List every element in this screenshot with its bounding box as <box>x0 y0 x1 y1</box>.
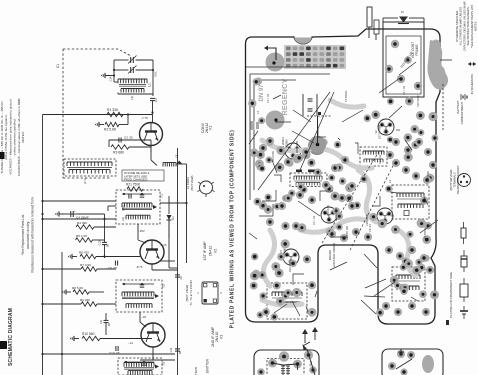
vol frame pads <box>385 40 441 91</box>
wire row 304 <box>41 303 81 305</box>
wire right margin <box>440 60 452 130</box>
svg-text:C1: C1 <box>56 64 60 68</box>
capacitor C10 <box>109 346 120 355</box>
svg-text:CAPACITORS: DECIMAL VALUES IN: CAPACITORS: DECIMAL VALUES IN MF; <box>462 0 466 51</box>
svg-text:TERMINALS: TERMINALS <box>453 172 457 188</box>
label R13 500K <box>399 51 416 75</box>
resistor R7 3.9K <box>41 263 116 271</box>
svg-text:R8 5.6K: R8 5.6K <box>72 286 84 290</box>
volume control frame <box>383 22 424 97</box>
title SCHEMATIC DIAGRAM <box>8 308 14 366</box>
voltage labels <box>128 229 167 345</box>
svg-text:COMPARTMENT: COMPARTMENT <box>460 102 464 125</box>
title PLATED PANEL WIRING <box>230 130 236 329</box>
earphone jack <box>367 7 379 40</box>
arrow symbol top-left <box>264 46 276 61</box>
svg-text:OSC: OSC <box>155 71 158 77</box>
svg-text:NOTES:: NOTES: <box>21 131 25 143</box>
svg-text:REGENCY: REGENCY <box>280 79 289 116</box>
svg-text:-.35V: -.35V <box>138 229 145 233</box>
wire misc1 <box>108 206 116 211</box>
notes text block <box>0 98 25 176</box>
wire bottom rail <box>41 353 175 355</box>
transistor V3 <box>141 323 165 347</box>
tuning gang C1 dashed outline <box>56 49 131 178</box>
transformer T5 on board <box>392 267 425 301</box>
svg-text:CAPACITORS – Decimal values in: CAPACITORS – Decimal values in MF, all o… <box>17 98 21 176</box>
wire T2 to V3 base <box>140 312 146 327</box>
wire rail emitter col <box>177 148 179 375</box>
svg-text:-7.75: -7.75 <box>141 116 148 120</box>
tuning capacitor mounting grid <box>284 45 346 69</box>
wire rail left <box>42 115 44 375</box>
svg-text:R16 10K: R16 10K <box>334 208 338 218</box>
transistor V2 <box>140 240 164 264</box>
resistor R8 5.6K <box>63 286 104 295</box>
svg-text:2N412: 2N412 <box>208 246 212 257</box>
diode M1 <box>383 10 424 24</box>
transformer T1 on board <box>360 147 387 166</box>
wire v2 col <box>160 260 175 262</box>
svg-text:ALL OTHERS IN MMF UNLESS: ALL OTHERS IN MMF UNLESS <box>459 7 463 46</box>
wire row 201 <box>41 200 116 215</box>
svg-text:TUNING RANGE – 535 KC to 1605: TUNING RANGE – 535 KC to 1605 KC. IF – 4… <box>0 100 4 173</box>
silkscreen REGENCY <box>280 79 289 116</box>
svg-text:E1: E1 <box>171 216 175 220</box>
label T conn <box>185 280 193 305</box>
svg-text:*SEE REPLACEMENT PARTS LIST.: *SEE REPLACEMENT PARTS LIST. <box>470 4 474 48</box>
cap symbols on board <box>303 94 321 116</box>
note box IN SOME RE-4000 <box>122 170 164 181</box>
ground at tank <box>102 73 114 78</box>
page reference mark left lower <box>0 341 7 349</box>
svg-text:T4 455KC: T4 455KC <box>423 227 427 239</box>
svg-text:SCHEMATIC DIAGRAM: SCHEMATIC DIAGRAM <box>8 308 14 366</box>
svg-text:R9 22K: R9 22K <box>80 298 91 302</box>
coil L3 <box>160 155 188 263</box>
resistor R5 1.5K <box>76 234 105 242</box>
tuning capacitor C1A C1B <box>110 56 158 97</box>
resistor R3 680 <box>109 140 151 155</box>
wire emitter V2 <box>152 264 183 280</box>
svg-text:C10 .05: C10 .05 <box>109 351 120 355</box>
svg-text:2ND IF AMP: 2ND IF AMP <box>211 326 215 347</box>
svg-text:VOLTAGES – Measured from point: VOLTAGES – Measured from point indicated… <box>8 99 12 174</box>
gray disc center <box>308 137 326 155</box>
svg-text:.05: .05 <box>106 244 110 248</box>
socket mid on board <box>321 207 337 223</box>
resistor R4 39K <box>76 221 116 229</box>
svg-text:R1 33K: R1 33K <box>107 108 119 112</box>
gray disc center overdraw <box>309 116 326 153</box>
interconnect traces <box>249 78 438 316</box>
svg-text:R7 3.9K: R7 3.9K <box>80 263 92 267</box>
svg-text:with a VTVM, ±10%. No signal i: with a VTVM, ±10%. No signal in. <box>4 114 8 160</box>
diode E1 <box>167 196 178 268</box>
svg-text:(2.5): (2.5) <box>121 205 125 210</box>
pcb board outline <box>246 29 441 324</box>
svg-text:.05: .05 <box>178 351 182 355</box>
svg-text:C17 .02: C17 .02 <box>378 154 382 164</box>
label V1 <box>201 122 213 133</box>
resistor R1 33K <box>107 108 123 117</box>
antenna coil L2 dashed <box>64 159 116 184</box>
right margin notes <box>455 0 478 51</box>
transformer T2 on board <box>267 283 307 319</box>
transformer L2 on board <box>290 170 327 187</box>
wire rail left2 <box>61 252 63 375</box>
transformer T3 <box>118 358 166 375</box>
svg-text:T1: T1 <box>160 194 164 198</box>
svg-text:R21 750K: R21 750K <box>126 183 141 187</box>
gray blob right lower <box>436 66 446 90</box>
svg-text:LOCATED UNDER: LOCATED UNDER <box>332 243 336 268</box>
svg-text:R2 5.6K: R2 5.6K <box>104 128 117 132</box>
svg-text:R3 680: R3 680 <box>113 151 124 155</box>
wire V1 base <box>152 113 154 123</box>
svg-text:C11: C11 <box>169 347 173 352</box>
svg-text:L1: L1 <box>148 83 152 87</box>
svg-text:FRAME: FRAME <box>415 44 419 55</box>
svg-text:L3: L3 <box>175 155 179 159</box>
svg-text:L2 CONV: L2 CONV <box>186 177 190 189</box>
wire base feed R1 <box>43 114 153 116</box>
svg-text:T2: T2 <box>162 284 166 288</box>
wire T1 to V2 base <box>138 224 146 243</box>
svg-text:SEE PRODUCTION CHANGES.: SEE PRODUCTION CHANGES. <box>466 6 470 45</box>
wire V1 collector chain <box>151 146 157 166</box>
svg-text:BOARD: BOARD <box>328 250 332 260</box>
svg-text:C8 .04: C8 .04 <box>368 224 372 232</box>
svg-text:associated circuitry.: associated circuitry. <box>26 221 30 249</box>
L2 CONV bottom view symbol <box>186 175 215 197</box>
svg-text:T1, T2 & T3 CONN: T1, T2 & T3 CONN <box>189 280 193 305</box>
code details symbols <box>460 250 468 319</box>
capacitor C11 <box>169 347 182 355</box>
gray disc mid-left <box>266 111 285 130</box>
svg-text:(BOTTOM VIEW): (BOTTOM VIEW) <box>449 169 453 190</box>
svg-text:CONV: CONV <box>285 139 289 147</box>
svg-text:unless otherwise specified.: unless otherwise specified. <box>13 118 17 155</box>
svg-text:R16 10K: R16 10K <box>288 262 292 272</box>
svg-text:T4 455KC: T4 455KC <box>344 90 348 102</box>
in schematic symbol <box>468 62 476 94</box>
svg-text:R12 6.8K: R12 6.8K <box>271 151 275 162</box>
transformer T4 on board <box>392 185 429 219</box>
svg-text:R12 6.8K: R12 6.8K <box>426 171 430 182</box>
svg-text:(BOT VIEW): (BOT VIEW) <box>185 285 189 302</box>
svg-text:C17 .02: C17 .02 <box>402 85 406 95</box>
socket V3 on board <box>377 208 393 224</box>
svg-text:R10 560: R10 560 <box>82 332 95 336</box>
svg-text:R12 6.8K: R12 6.8K <box>326 205 330 216</box>
svg-text:C8: C8 <box>179 276 183 280</box>
svg-text:1ST IF AMP: 1ST IF AMP <box>203 241 207 261</box>
svg-text:(2.1): (2.1) <box>83 178 87 184</box>
svg-text:.05: .05 <box>107 323 111 327</box>
copper traces light gray <box>262 100 416 305</box>
battery symbol <box>461 94 467 100</box>
transformer T2 <box>116 280 166 312</box>
resistor R6 470 <box>69 251 140 260</box>
board reference labels <box>256 85 430 272</box>
svg-text:PLATED PANEL WIRING AS VIEWED: PLATED PANEL WIRING AS VIEWED FROM TOP (… <box>230 130 236 329</box>
component pads <box>248 77 439 320</box>
svg-text:DN 97: DN 97 <box>259 84 265 102</box>
svg-text:C1A: C1A <box>110 76 113 81</box>
svg-text:R6 470: R6 470 <box>79 251 89 255</box>
transistor socket bottom view symbol <box>449 165 471 194</box>
dashed trace <box>307 115 332 117</box>
svg-text:CONV: CONV <box>201 122 205 133</box>
svg-text:-1.25: -1.25 <box>160 243 167 247</box>
svg-text:Resistances measured with tran: Resistances measured with transistors re… <box>31 197 35 272</box>
capacitor C15 <box>98 214 110 258</box>
resistor R9 22K <box>80 298 116 306</box>
arrow under board <box>312 327 318 340</box>
svg-text:1ST IF AMP: 1ST IF AMP <box>378 125 382 140</box>
socket V2 on board <box>374 119 394 139</box>
conn square T1 T2 T3 <box>196 282 223 304</box>
svg-text:TRAN: TRAN <box>194 367 198 375</box>
svg-text:(BOT VIEW): (BOT VIEW) <box>190 175 194 190</box>
small pads left edge <box>251 121 260 130</box>
capacitor C6 <box>108 261 118 271</box>
svg-text:R5 1.5K: R5 1.5K <box>76 234 88 238</box>
svg-text:EMITTER: EMITTER <box>206 358 210 373</box>
voltage label -7.75 <box>141 116 148 120</box>
svg-text:C9: C9 <box>99 320 103 324</box>
svg-text:R16 10K: R16 10K <box>345 226 349 236</box>
board notch fill <box>294 38 312 44</box>
label V3 <box>211 326 223 347</box>
svg-text:*See Replacement Parts List: *See Replacement Parts List <box>21 215 25 256</box>
osc coil L1 <box>114 79 153 100</box>
notes text block 2 <box>21 197 35 272</box>
svg-text:2N412: 2N412 <box>205 123 209 134</box>
svg-text:C3 .05: C3 .05 <box>124 136 133 140</box>
resistor R10 560 <box>71 332 152 341</box>
capacitor C9 <box>99 313 111 335</box>
svg-text:C15: C15 <box>98 240 102 245</box>
svg-text:(.4): (.4) <box>130 96 134 100</box>
svg-text:C20 50MF: C20 50MF <box>365 213 369 226</box>
svg-text:NOTES:: NOTES: <box>474 21 478 31</box>
svg-text:C17 .02: C17 .02 <box>312 215 316 225</box>
svg-text:R4 39K: R4 39K <box>77 221 88 225</box>
gray blob right edge <box>428 40 449 89</box>
svg-text:-.18: -.18 <box>141 315 146 319</box>
capacitor C3 .05 <box>109 136 151 143</box>
silkscreen DN 97 <box>259 84 265 102</box>
svg-text:C20 50MF: C20 50MF <box>416 94 420 107</box>
resistor R2 5.6K <box>96 115 128 132</box>
svg-text:2N410: 2N410 <box>215 332 219 343</box>
gray disc top-left <box>266 53 285 72</box>
svg-text:V1: V1 <box>209 126 213 130</box>
svg-text:C2: C2 <box>154 98 158 102</box>
label V2 <box>203 241 218 261</box>
svg-text:V2: V2 <box>214 249 218 253</box>
svg-text:IN SCHEMATIC: IN SCHEMATIC <box>470 74 474 95</box>
svg-text:V2: V2 <box>374 130 378 134</box>
svg-text:-8.75: -8.75 <box>136 265 143 269</box>
transistor V1 <box>140 123 163 146</box>
label emitter <box>194 358 210 375</box>
socket V4 on board <box>279 247 299 265</box>
bottom left sub-board <box>254 342 319 375</box>
capacitor C4 25MF <box>41 209 116 220</box>
arrowhead at L3 <box>178 161 183 165</box>
bottom right sub-board <box>382 349 443 375</box>
transformer T1 <box>116 190 164 224</box>
arrow bottom mid <box>302 329 308 343</box>
trace rect outer <box>246 67 330 200</box>
capacitor C2 <box>150 98 158 113</box>
socket V1 on board <box>281 137 301 159</box>
resistor detail symbol <box>461 222 466 244</box>
page reference mark left upper <box>0 152 5 159</box>
resistor R21 750K <box>126 183 143 192</box>
wire V3 collector <box>140 347 175 360</box>
label located under board <box>328 243 336 268</box>
svg-text:C17 .02: C17 .02 <box>266 93 270 103</box>
svg-text:(.6): (.6) <box>121 217 125 221</box>
label plating side <box>449 272 453 318</box>
svg-text:PLATING ON COMPONENT SIDE: PLATING ON COMPONENT SIDE <box>449 272 453 318</box>
small mark right of board <box>446 320 449 325</box>
node junction R1 <box>127 111 154 115</box>
svg-text:-.14: -.14 <box>128 341 133 345</box>
label battery compartment <box>456 100 464 124</box>
pointer lines <box>258 92 396 250</box>
svg-text:V3: V3 <box>219 335 223 339</box>
svg-text:TRANSISTOR SOCKET: TRANSISTOR SOCKET <box>456 165 460 194</box>
svg-text:T3: T3 <box>162 362 166 366</box>
svg-text:PROD. CHANGES): PROD. CHANGES) <box>124 177 148 181</box>
svg-text:OTHERWISE SPECIFIED.: OTHERWISE SPECIFIED. <box>455 10 459 42</box>
